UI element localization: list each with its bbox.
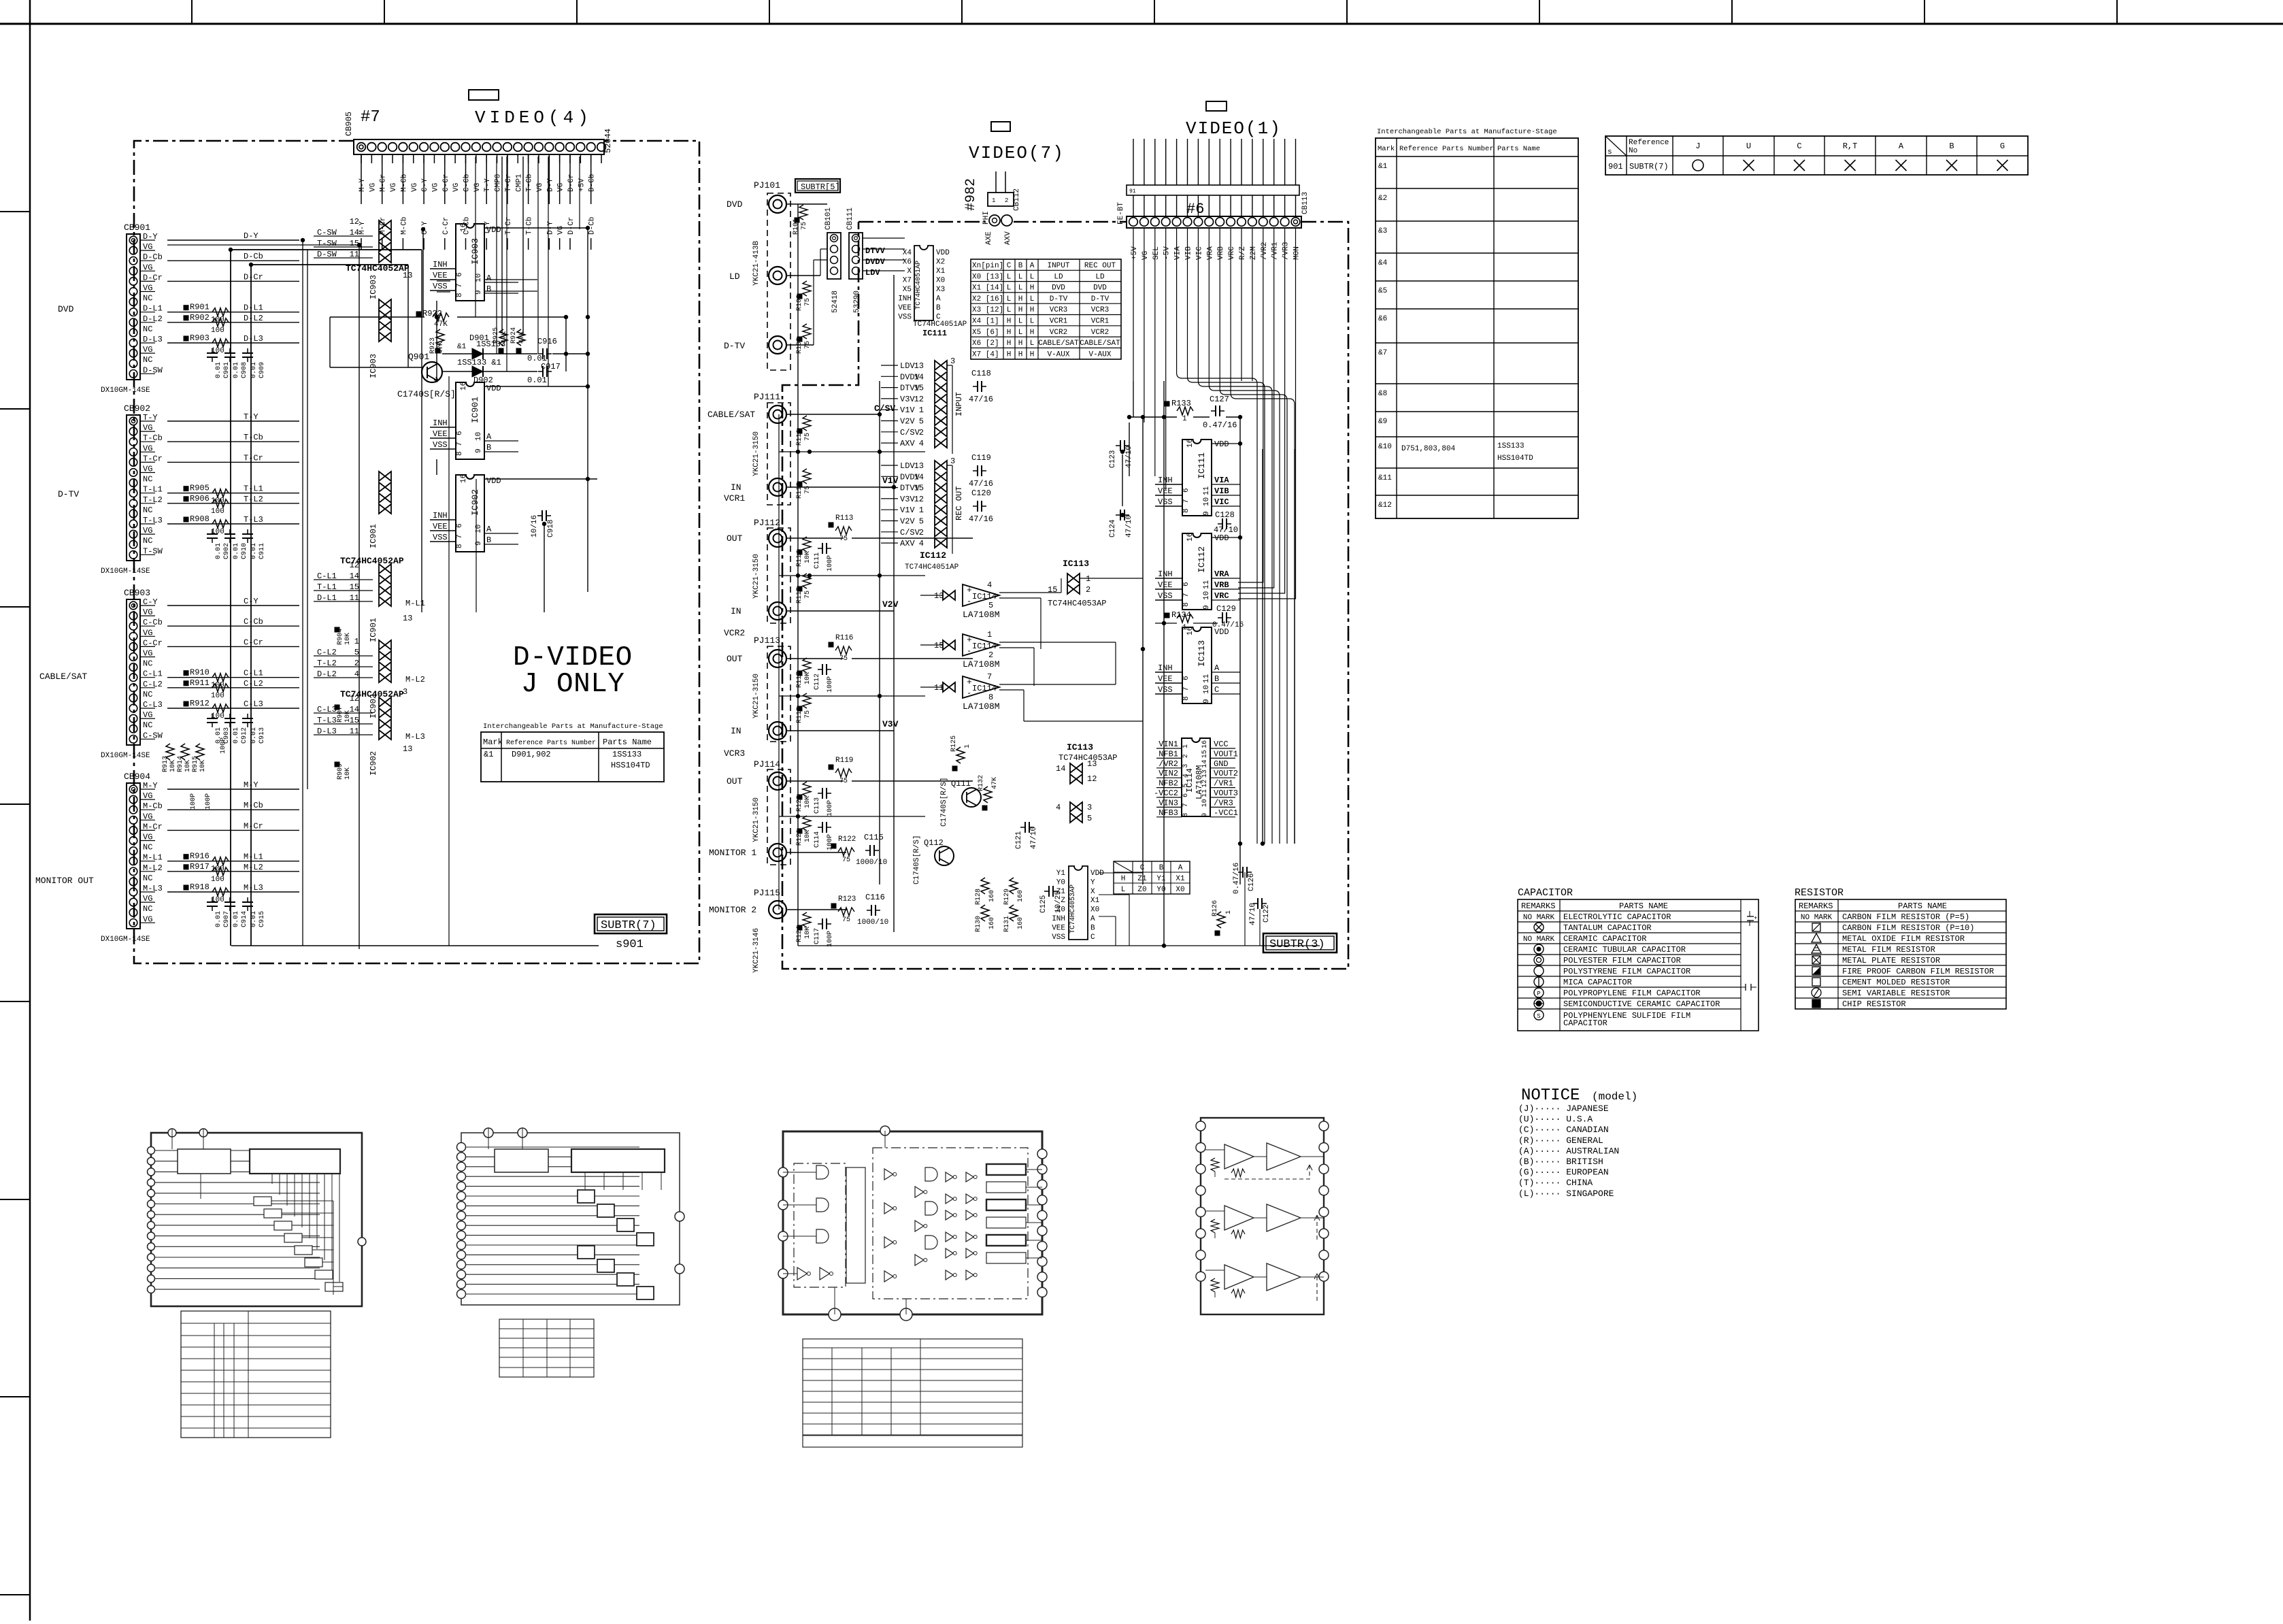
svg-text:D-TV: D-TV — [1050, 295, 1068, 303]
svg-text:M-L3: M-L3 — [405, 732, 425, 742]
svg-text:CABLE/SAT: CABLE/SAT — [707, 410, 755, 420]
svg-text:A: A — [1178, 864, 1183, 872]
svg-text:7: 7 — [456, 283, 464, 288]
svg-text:C118: C118 — [971, 369, 991, 378]
svg-text:10: 10 — [475, 274, 483, 282]
resistor group R916-R918 — [184, 855, 188, 859]
svg-text:VDD: VDD — [486, 225, 501, 235]
svg-text:DX10GM-14SE: DX10GM-14SE — [101, 935, 150, 944]
svg-text:B: B — [936, 304, 941, 312]
svg-text:R902: R902 — [190, 313, 210, 322]
svg-text:12: 12 — [350, 217, 359, 227]
svg-text:14: 14 — [350, 228, 359, 237]
svg-text:VDD: VDD — [1214, 627, 1229, 637]
svg-text:C914: C914 — [241, 911, 248, 927]
bend bundle wires VR — [1238, 231, 1263, 582]
svg-text:3: 3 — [1087, 803, 1092, 812]
svg-text:X4 [1]: X4 [1] — [972, 318, 999, 326]
svg-text:13: 13 — [1087, 759, 1097, 769]
svg-text:15: 15 — [934, 641, 944, 650]
svg-text:D-Cr: D-Cr — [567, 174, 576, 192]
svg-text:C121: C121 — [1015, 831, 1023, 849]
svg-text:8: 8 — [1182, 813, 1190, 817]
svg-text:Z: Z — [1061, 897, 1065, 905]
svg-text:47/16: 47/16 — [969, 514, 993, 524]
svg-text:B: B — [486, 284, 491, 294]
svg-text:2: 2 — [988, 650, 993, 660]
svg-text:IC114: IC114 — [972, 642, 997, 651]
svg-text:H: H — [1018, 339, 1023, 348]
capacitor C127 — [1215, 405, 1216, 416]
svg-text:G: G — [2000, 142, 2005, 151]
svg-text:0.01: 0.01 — [233, 543, 240, 559]
svg-text:B: B — [1018, 262, 1023, 270]
svg-text:0.01: 0.01 — [215, 362, 222, 378]
svg-text:12: 12 — [350, 694, 359, 703]
svg-text:INPUT: INPUT — [1047, 262, 1069, 270]
resistor R134 — [1165, 613, 1169, 618]
svg-text:V1V: V1V — [900, 506, 915, 515]
transistor Q901 — [422, 362, 442, 382]
svg-text:R913: R913 — [162, 756, 169, 772]
svg-text:4: 4 — [354, 669, 359, 679]
svg-text:C123: C123 — [1109, 450, 1117, 468]
svg-text:#6: #6 — [1186, 201, 1204, 218]
svg-text:INH: INH — [1158, 476, 1173, 485]
svg-text:+: + — [1754, 915, 1757, 922]
svg-text:Z2M: Z2M — [1250, 246, 1258, 260]
svg-text:-: - — [967, 689, 971, 698]
svg-text:GND: GND — [1214, 759, 1229, 769]
jack PJ113 IN — [769, 722, 786, 740]
bottom block2 right terminals — [675, 1212, 684, 1221]
svg-text:8: 8 — [1182, 508, 1190, 513]
PJ ground bus wires — [779, 451, 925, 452]
capacitor C111 — [822, 543, 823, 554]
svg-text:R114: R114 — [796, 550, 803, 567]
middle bottom bus wire — [798, 945, 1320, 946]
svg-text:VG: VG — [390, 183, 398, 192]
svg-text:100P: 100P — [827, 676, 834, 693]
svg-text:IC903: IC903 — [470, 238, 480, 265]
capacitor C122 — [1257, 898, 1259, 909]
svg-text:10K: 10K — [344, 633, 352, 645]
svg-text:C116: C116 — [865, 893, 885, 902]
svg-text:C1740S[R/S]: C1740S[R/S] — [940, 777, 948, 827]
capacitor group C901-C909 — [207, 352, 218, 354]
svg-text:10: 10 — [1203, 497, 1211, 506]
svg-text:A: A — [1090, 915, 1095, 923]
svg-text:D-Y: D-Y — [546, 178, 554, 192]
svg-text:D-Cr: D-Cr — [567, 217, 576, 235]
svg-text:D751,803,804: D751,803,804 — [1401, 445, 1456, 453]
capacitor C118 — [977, 381, 978, 392]
svg-text:LA7108M: LA7108M — [963, 610, 1000, 620]
svg-text:Interchangeable Parts at Manuf: Interchangeable Parts at Manufacture-Sta… — [1377, 128, 1557, 136]
svg-text:VEE: VEE — [433, 522, 448, 531]
svg-text:14: 14 — [914, 472, 924, 482]
resistor R103 — [797, 337, 802, 342]
svg-text:OUT: OUT — [727, 654, 743, 664]
CB905 long drop wires — [475, 156, 476, 317]
svg-text:VG: VG — [452, 183, 461, 192]
VIDEO(1) harness wires — [1127, 185, 1299, 195]
svg-text:5: 5 — [354, 648, 359, 657]
svg-text:IC902: IC902 — [470, 489, 480, 516]
subtr7 dash-dot boundary — [134, 141, 699, 963]
svg-text:100P: 100P — [827, 931, 834, 947]
svg-text:C907: C907 — [223, 911, 231, 927]
svg-text:Z0: Z0 — [1056, 906, 1065, 914]
svg-text:C/SV: C/SV — [900, 428, 920, 437]
svg-text:A: A — [1214, 663, 1220, 673]
svg-text:13: 13 — [403, 744, 412, 754]
svg-text:10K: 10K — [804, 830, 812, 842]
svg-text:V1V: V1V — [900, 405, 915, 415]
capacitor C125 — [1048, 886, 1050, 897]
svg-text:&7: &7 — [1378, 349, 1387, 357]
op-amp IC114 LA7108M pin 11 — [963, 676, 999, 698]
svg-text:47/10: 47/10 — [1249, 903, 1257, 925]
svg-text:C/SV: C/SV — [874, 403, 895, 414]
svg-text:C910: C910 — [241, 543, 248, 559]
svg-text:T-Cr: T-Cr — [505, 217, 513, 235]
resistor group R128-R131 — [981, 878, 989, 894]
svg-text:VRC: VRC — [1214, 591, 1229, 601]
svg-text:AXV: AXV — [900, 539, 915, 548]
svg-text:NC: NC — [143, 904, 152, 914]
svg-text:POLYESTER FILM CAPACITOR: POLYESTER FILM CAPACITOR — [1563, 956, 1681, 965]
svg-text:C: C — [1140, 864, 1145, 872]
svg-text:&2: &2 — [1378, 195, 1387, 203]
svg-text:YKC21-3150: YKC21-3150 — [752, 554, 761, 599]
svg-text:CB904: CB904 — [124, 772, 150, 782]
svg-text:91: 91 — [1129, 188, 1136, 195]
bottom block 3 outline — [783, 1131, 1042, 1314]
svg-text:9: 9 — [1201, 813, 1209, 817]
svg-text:V3V: V3V — [900, 495, 915, 504]
svg-text:CABLE/SAT: CABLE/SAT — [1080, 339, 1120, 348]
bottom block3 inverter columns — [884, 1169, 893, 1180]
svg-text:DVD: DVD — [1052, 284, 1065, 293]
svg-text:8: 8 — [1182, 602, 1190, 607]
svg-text:C-Y: C-Y — [244, 597, 259, 606]
svg-text:H: H — [1018, 295, 1023, 303]
bottom block1 top terminals — [168, 1129, 176, 1137]
svg-text:12: 12 — [914, 495, 924, 504]
svg-text:CARBON FILM RESISTOR (P=5): CARBON FILM RESISTOR (P=5) — [1842, 912, 1969, 922]
svg-text:100: 100 — [211, 712, 224, 720]
subtr3 dash-dot boundary — [859, 221, 985, 223]
svg-text:12: 12 — [914, 395, 924, 404]
svg-text:10K: 10K — [804, 551, 812, 563]
svg-text:C/SV: C/SV — [900, 528, 920, 537]
svg-text:16: 16 — [460, 382, 468, 391]
analog switch group IC903 — [379, 299, 391, 309]
svg-text:C918: C918 — [547, 520, 555, 537]
svg-text:C-L1: C-L1 — [244, 669, 263, 678]
svg-text:100: 100 — [211, 508, 224, 516]
svg-text:100: 100 — [211, 896, 224, 904]
svg-text:DX10GM-14SE: DX10GM-14SE — [101, 752, 150, 760]
capacitor C117 — [822, 918, 823, 929]
svg-text:VCR1: VCR1 — [1050, 318, 1068, 326]
svg-text:5: 5 — [1087, 814, 1092, 823]
svg-text:R126: R126 — [1212, 900, 1219, 916]
svg-text:D-L2: D-L2 — [244, 314, 263, 323]
svg-text:C913: C913 — [259, 727, 266, 744]
svg-text:T-L1: T-L1 — [244, 484, 263, 494]
resistor R907 — [335, 705, 339, 710]
svg-text:YKC21-413B: YKC21-413B — [752, 241, 761, 286]
SUBTR(3) label — [1263, 933, 1337, 952]
svg-text:FE-BT: FE-BT — [1117, 202, 1125, 225]
svg-text:4: 4 — [919, 439, 924, 448]
svg-text:&6: &6 — [1378, 315, 1387, 323]
capacitor C116 — [871, 905, 872, 916]
svg-text:VIB: VIB — [1214, 486, 1229, 496]
svg-text:VDD: VDD — [936, 249, 950, 257]
svg-text:VOUT1: VOUT1 — [1214, 749, 1238, 759]
svg-text:-VCC1: -VCC1 — [1214, 808, 1238, 818]
svg-text:SEMICONDUCTIVE CERAMIC CAPACIT: SEMICONDUCTIVE CERAMIC CAPACITOR — [1563, 999, 1720, 1009]
svg-text:VIN2: VIN2 — [1159, 769, 1178, 778]
svg-text:10: 10 — [1203, 685, 1211, 694]
analog switch group IC902 — [379, 640, 391, 650]
svg-text:V-AUX: V-AUX — [1088, 350, 1111, 359]
svg-text:C119: C119 — [971, 453, 991, 463]
svg-text:A: A — [1899, 142, 1904, 151]
resistor R115 — [797, 586, 802, 591]
svg-text:C-Cb: C-Cb — [244, 617, 263, 627]
svg-text:IC114: IC114 — [972, 684, 997, 693]
bottom table 2 — [499, 1319, 594, 1377]
bottom block2 left terminals — [457, 1143, 466, 1152]
svg-text:VDD: VDD — [1214, 533, 1229, 543]
svg-text:10K: 10K — [804, 796, 812, 808]
svg-text:DX10GM-14SE: DX10GM-14SE — [101, 567, 150, 576]
resistor R121 — [797, 829, 802, 833]
svg-text:R129: R129 — [1003, 889, 1011, 905]
bottom block 1 outline — [151, 1133, 362, 1306]
svg-text:C124: C124 — [1109, 519, 1117, 537]
capacitor C123 — [1120, 440, 1121, 451]
svg-text:&12: &12 — [1378, 501, 1392, 510]
svg-text:IC903: IC903 — [369, 354, 378, 378]
svg-text:-5V: -5V — [1163, 246, 1171, 260]
svg-text:X4: X4 — [903, 249, 912, 257]
svg-text:L: L — [1007, 306, 1012, 314]
svg-text:1: 1 — [354, 637, 359, 646]
svg-text:5: 5 — [1182, 784, 1190, 788]
jack PJ111 IN — [769, 478, 786, 496]
svg-text:-VCC2: -VCC2 — [1154, 789, 1178, 798]
svg-text:IC111: IC111 — [922, 329, 947, 338]
svg-text:14: 14 — [1201, 760, 1209, 768]
svg-text:1SS133 &1: 1SS133 &1 — [457, 358, 501, 367]
svg-text:R915: R915 — [192, 756, 199, 772]
svg-text:0.01: 0.01 — [527, 376, 547, 385]
svg-text:(C)····· CANADIAN: (C)····· CANADIAN — [1518, 1125, 1609, 1135]
svg-text:#982: #982 — [963, 178, 979, 211]
reference table marks — [1693, 160, 1703, 171]
svg-text:VCR3: VCR3 — [1050, 306, 1067, 314]
svg-text:12: 12 — [1201, 780, 1209, 788]
svg-text:NO MARK: NO MARK — [1801, 914, 1833, 922]
svg-text:VIA: VIA — [1174, 246, 1182, 260]
svg-text:NC: NC — [143, 690, 152, 699]
svg-text:NC: NC — [143, 874, 152, 883]
svg-text:3: 3 — [950, 357, 955, 366]
svg-text:11: 11 — [350, 727, 359, 736]
resistor R924 — [517, 329, 525, 346]
svg-text:CB901: CB901 — [124, 222, 150, 233]
svg-text:INH: INH — [433, 511, 448, 520]
svg-text:REC OUT: REC OUT — [954, 486, 964, 520]
svg-text:CB905: CB905 — [344, 112, 354, 136]
svg-text:(G)····· EUROPEAN: (G)····· EUROPEAN — [1518, 1167, 1609, 1178]
svg-text:Mark: Mark — [483, 738, 503, 747]
svg-text:PJ115: PJ115 — [754, 888, 780, 898]
svg-text:X5: X5 — [903, 286, 912, 294]
svg-text:R905: R905 — [190, 484, 210, 493]
resistor R904 — [335, 627, 339, 632]
svg-text:D-Cb: D-Cb — [244, 252, 263, 261]
svg-text:C127: C127 — [1210, 395, 1229, 404]
svg-text:L: L — [1018, 329, 1023, 337]
svg-text:/VR1: /VR1 — [1214, 779, 1233, 789]
svg-text:L: L — [1018, 284, 1023, 293]
resistor R123 — [831, 904, 836, 908]
svg-text:VIC: VIC — [1195, 246, 1203, 260]
svg-text:VRA: VRA — [1206, 246, 1214, 260]
svg-text:FIRE PROOF CARBON FILM RESISTO: FIRE PROOF CARBON FILM RESISTOR — [1842, 967, 1994, 976]
svg-text:VCR3: VCR3 — [724, 748, 745, 759]
svg-text:T-Cr: T-Cr — [244, 453, 263, 463]
svg-text:4: 4 — [1056, 803, 1061, 812]
svg-text:52044: 52044 — [603, 129, 613, 153]
svg-text:R912: R912 — [190, 699, 210, 708]
svg-text:R,T: R,T — [1843, 142, 1858, 151]
svg-text:1: 1 — [992, 197, 995, 204]
svg-text:D-Cb: D-Cb — [588, 174, 597, 192]
svg-text:11: 11 — [1203, 486, 1211, 495]
svg-text:8: 8 — [456, 544, 464, 548]
svg-text:R924: R924 — [510, 327, 518, 344]
svg-text:A: A — [1030, 262, 1035, 270]
signal wires from CB901 — [167, 239, 299, 241]
bottom block1 left terminals — [148, 1147, 155, 1155]
svg-text:PARTS NAME: PARTS NAME — [1898, 901, 1947, 911]
svg-text:MON: MON — [1293, 246, 1301, 260]
svg-text:C-Cr: C-Cr — [442, 174, 450, 192]
svg-text:PJ112: PJ112 — [754, 518, 780, 528]
svg-text:A: A — [486, 432, 492, 442]
svg-text:6: 6 — [456, 272, 464, 277]
resistor R909 — [335, 762, 339, 767]
svg-text:R112: R112 — [796, 482, 803, 499]
VIDEO(1) header — [1206, 101, 1227, 111]
svg-text:R116: R116 — [835, 634, 853, 642]
capacitor C917 — [542, 366, 544, 377]
svg-text:U: U — [1746, 142, 1751, 151]
svg-text:R916: R916 — [190, 852, 210, 861]
capacitor C120 — [977, 501, 978, 512]
svg-text:D-Cr: D-Cr — [244, 272, 263, 282]
resistor R126 — [1217, 912, 1225, 928]
svg-text:5: 5 — [919, 517, 924, 527]
svg-text:R103: R103 — [796, 337, 803, 354]
svg-text:IN: IN — [731, 606, 741, 616]
svg-text:VG: VG — [473, 183, 482, 192]
sheet border top rule — [0, 23, 2283, 25]
svg-text:6: 6 — [456, 523, 464, 528]
svg-text:Reference Parts Number: Reference Parts Number — [506, 739, 596, 747]
bottom block2 cascade boxes — [578, 1190, 595, 1203]
svg-text:OUT: OUT — [727, 776, 743, 786]
svg-text:Reference: Reference — [1629, 139, 1669, 147]
svg-text:2: 2 — [919, 428, 924, 437]
svg-text:J: J — [1695, 142, 1700, 151]
capacitor C112 — [822, 664, 823, 675]
svg-text:D-L1: D-L1 — [244, 303, 263, 313]
svg-text:L: L — [1030, 318, 1035, 326]
svg-text:C911: C911 — [259, 543, 266, 559]
svg-text:IC113: IC113 — [1197, 640, 1207, 667]
multiplexer IC112 output stage — [1182, 533, 1212, 610]
capacitor C129 — [1222, 612, 1223, 623]
capacitor C113 — [822, 788, 823, 799]
svg-text:100P: 100P — [205, 793, 212, 810]
svg-text:CHIP RESISTOR: CHIP RESISTOR — [1842, 999, 1906, 1009]
capacitor group C903-C913 — [207, 718, 218, 719]
svg-text:VDD: VDD — [486, 476, 501, 486]
svg-text:IC903: IC903 — [369, 275, 378, 299]
svg-text:0.01: 0.01 — [215, 911, 222, 927]
svg-text:11: 11 — [934, 683, 944, 693]
svg-text:1000/10: 1000/10 — [857, 918, 888, 927]
svg-text:METAL FILM RESISTOR: METAL FILM RESISTOR — [1842, 945, 1935, 955]
svg-text:16: 16 — [460, 223, 468, 232]
svg-text:Y: Y — [1090, 878, 1095, 886]
svg-text:0.01: 0.01 — [250, 362, 258, 378]
analog switch group IC903 — [379, 220, 391, 230]
svg-text:L: L — [1007, 273, 1012, 281]
svg-text:AXV: AXV — [900, 439, 915, 448]
svg-text:1SS133: 1SS133 — [612, 750, 641, 759]
signal bus verticals — [302, 240, 303, 946]
svg-text:VIB: VIB — [1185, 246, 1193, 260]
svg-text:H: H — [1007, 339, 1012, 348]
svg-text:C120: C120 — [971, 488, 991, 498]
diode D902 1SS133 — [472, 366, 483, 377]
svg-text:0.01: 0.01 — [233, 911, 240, 927]
svg-text:R120: R120 — [796, 795, 803, 812]
svg-text:V3V: V3V — [900, 395, 915, 404]
svg-text:C112: C112 — [814, 674, 821, 690]
svg-text:CMP0: CMP0 — [495, 174, 503, 192]
svg-text:ELECTROLYTIC CAPACITOR: ELECTROLYTIC CAPACITOR — [1563, 912, 1671, 922]
svg-text:YKC21-3150: YKC21-3150 — [752, 797, 761, 842]
svg-text:NC: NC — [143, 720, 152, 730]
svg-text:Q112: Q112 — [924, 838, 944, 848]
svg-text:100P: 100P — [220, 738, 227, 754]
svg-text:13: 13 — [403, 271, 412, 280]
svg-text:&4: &4 — [1378, 259, 1388, 267]
op-amp IC114 LA7108M pin 13 — [963, 584, 999, 606]
svg-text:VG: VG — [557, 226, 565, 235]
svg-text:C115: C115 — [864, 833, 884, 842]
